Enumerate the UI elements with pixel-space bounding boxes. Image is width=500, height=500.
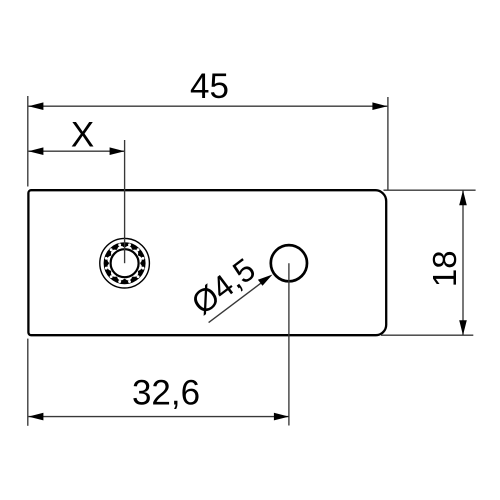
center line knurled hole <box>124 140 126 263</box>
hole D4,5 <box>271 245 307 281</box>
extension line bottom right (dim 18) <box>381 334 473 336</box>
dimension X arrow left <box>28 147 43 155</box>
dimension X arrow right <box>110 147 125 155</box>
dimension 45 arrow right <box>372 102 387 110</box>
svg-text:32,6: 32,6 <box>132 373 200 412</box>
dimension 45 arrow left <box>28 102 43 110</box>
leader line D4,5 <box>209 282 263 323</box>
center line knurled hole (inside) <box>124 238 126 263</box>
svg-text:45: 45 <box>190 67 229 106</box>
knurled hole serrated ring <box>104 242 146 284</box>
knurled hole inner circle <box>111 249 139 277</box>
dimension 18 arrow top <box>459 190 467 205</box>
center line hole D4,5 / extension line 32,6 right <box>288 263 290 425</box>
knurled hole outer circle <box>100 238 150 288</box>
svg-text:X: X <box>71 116 94 155</box>
dimension 32,6 line <box>28 416 289 418</box>
dimension X line <box>28 150 124 152</box>
dimension 32,6 arrow right <box>274 413 289 421</box>
extension line top right (dim 18) <box>384 189 476 191</box>
dimension 18 line <box>462 190 464 335</box>
dimension 45 line <box>28 105 387 107</box>
extension line left (dim 45 / X / 32,6) <box>27 96 29 187</box>
svg-text:18: 18 <box>426 250 463 287</box>
dimension 18 arrow bottom <box>459 320 467 335</box>
knurled hole serration notches <box>105 243 145 283</box>
plate outline <box>28 190 386 335</box>
extension line right (dim 45) <box>387 97 389 190</box>
leader arrow D4,5 <box>258 275 273 286</box>
dimension 32,6 arrow left <box>28 413 43 421</box>
extension line bottom left (dim 32,6) <box>27 339 29 426</box>
